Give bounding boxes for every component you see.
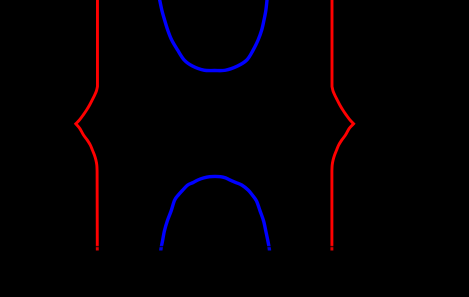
axis gap (invisible x-axis) (0, 246, 469, 247)
red curve right (332, 0, 354, 251)
blue curve bottom (161, 176, 270, 251)
blue curve top (159, 0, 268, 71)
dim below axis (0, 247, 469, 297)
red curve left (76, 0, 98, 251)
